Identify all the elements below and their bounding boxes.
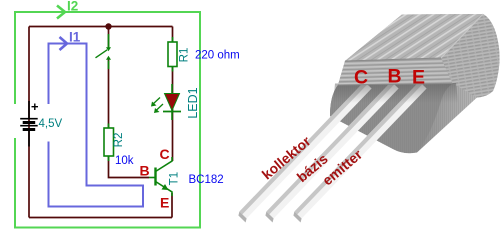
battery B1 (black symbol) [20,101,38,147]
svg-text:220 ohm: 220 ohm [195,50,240,62]
svg-text:C: C [160,146,170,162]
leg 2 (base) [265,82,398,223]
top (flat) face with ridges [345,14,483,61]
svg-text:R1: R1 [178,48,190,63]
right curved band with row hatch [441,14,500,98]
svg-text:BC182: BC182 [189,174,224,186]
wire: top horizontal [29,26,173,28]
svg-text:B: B [140,163,150,179]
current loop I2 (green rectangle) [15,12,200,228]
LED cathode bar [163,111,181,113]
front bevel face [338,58,453,85]
junction node dot [105,23,111,29]
transistor T1 (BC182) [149,157,172,196]
svg-text:R2: R2 [113,133,125,148]
svg-text:T1: T1 [169,172,181,185]
LED1 [171,84,173,120]
svg-text:E: E [160,195,169,211]
leg 1 (collector) [238,82,371,223]
LED triangle [165,94,180,111]
body silhouette (cylinder underside and right side) [330,14,500,153]
leg 3 (emitter) [293,82,426,223]
underside fine vertical hatch [330,14,500,153]
I1 arrow [60,37,68,50]
svg-text:E: E [412,67,425,89]
switch S1 (dark green, open) [96,34,112,69]
wire: bottom horizontal [29,217,172,219]
darker shadow blob under bevel [330,84,453,154]
wire: emitter to bottom [171,193,173,218]
LED emission arrows [151,98,163,114]
svg-text:I1: I1 [69,30,81,45]
bevel edge lines [338,58,453,85]
wire: left vertical (battery branch) [28,27,30,218]
I2 arrow [57,6,65,19]
svg-text:10k: 10k [115,155,134,167]
svg-text:I2: I2 [67,0,78,14]
shadow under bevel [333,83,458,104]
resistor R2 (10k) [108,124,110,162]
svg-text:4,5V: 4,5V [39,118,63,130]
resistor R1 (220 ohm) [172,37,174,72]
wire: collector branch (R1/LED) vertical [172,27,174,162]
battery plus sign [32,104,39,111]
svg-text:B: B [388,66,402,88]
svg-text:LED1: LED1 [186,87,200,118]
wire: R2 bottom to base corner [109,156,150,178]
edge highlight top-right [441,14,483,58]
svg-text:C: C [354,67,368,89]
wire: switch/R2 branch vertical [108,27,110,50]
white mask behind battery and 4,5V label [8,104,36,138]
emitter arrowhead [162,184,169,190]
current loop I1 (blue stepped loop) [49,44,144,207]
